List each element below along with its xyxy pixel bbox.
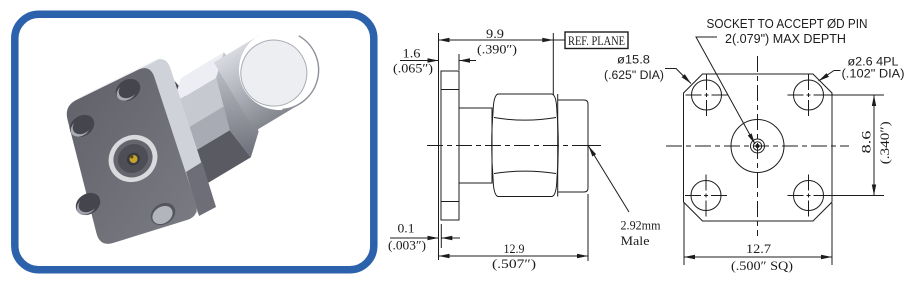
svg-text:REF. PLANE: REF. PLANE xyxy=(568,33,625,48)
svg-text:0.1: 0.1 xyxy=(398,221,415,236)
svg-text:(.065″): (.065″) xyxy=(393,61,433,76)
svg-text:12.7: 12.7 xyxy=(746,241,772,256)
svg-text:12.9: 12.9 xyxy=(504,241,525,256)
svg-text:1.6: 1.6 xyxy=(403,46,422,61)
svg-text:SOCKET TO ACCEPT ØD PIN: SOCKET TO ACCEPT ØD PIN xyxy=(707,17,868,31)
svg-text:9.9: 9.9 xyxy=(486,26,504,41)
svg-text:ø2.6 4PL: ø2.6 4PL xyxy=(848,57,900,69)
svg-text:(.500″ SQ): (.500″ SQ) xyxy=(731,258,793,273)
svg-text:Male: Male xyxy=(621,233,650,248)
svg-text:(.340″): (.340″) xyxy=(877,121,892,164)
svg-text:ø15.8: ø15.8 xyxy=(617,55,650,67)
svg-text:8.6: 8.6 xyxy=(859,130,874,154)
svg-text:2.92mm: 2.92mm xyxy=(621,218,661,233)
svg-text:(.507″): (.507″) xyxy=(492,256,536,271)
svg-text:2(.079") MAX DEPTH: 2(.079") MAX DEPTH xyxy=(725,32,846,46)
svg-text:(.102" DIA): (.102" DIA) xyxy=(842,69,905,81)
svg-text:(.003″): (.003″) xyxy=(388,238,426,253)
svg-text:(.625" DIA): (.625" DIA) xyxy=(604,70,664,82)
svg-text:(.390″): (.390″) xyxy=(477,42,517,57)
